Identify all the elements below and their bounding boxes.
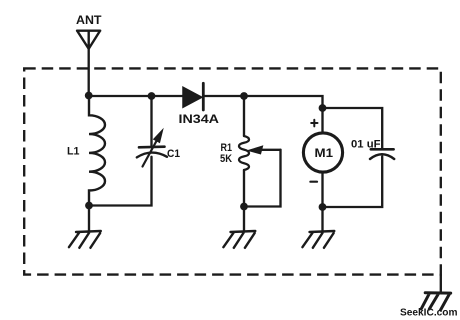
wire node C to C1 top plate	[150, 96, 152, 147]
capacitor 01uF plates	[370, 149, 394, 159]
wire diode cathode to node D	[203, 95, 244, 97]
meter M1 circle	[303, 133, 342, 172]
wire node B to ground G1	[88, 206, 90, 232]
inductor L1	[89, 96, 105, 206]
svg-text:IN34A: IN34A	[179, 112, 220, 126]
svg-text:5K: 5K	[220, 153, 232, 165]
wire node G to ground G3	[321, 207, 323, 231]
wire node A to diode anode	[89, 95, 184, 97]
ground G4 external	[421, 293, 451, 310]
node E junction dot	[240, 203, 248, 211]
variable capacitor C1	[137, 130, 167, 167]
R1 wiper arrow	[249, 146, 281, 154]
svg-text:M1: M1	[315, 146, 334, 160]
ground G3	[302, 231, 334, 248]
wire node F to capacitor 01uF top	[323, 108, 383, 149]
svg-text:L1: L1	[67, 145, 80, 157]
antenna symbol	[77, 31, 100, 49]
node C junction dot (C1 top)	[148, 92, 156, 100]
wire node D to R1 top	[243, 96, 245, 136]
wire node D to node F corner	[244, 96, 323, 108]
ground G2	[223, 231, 255, 248]
potentiometer R1 squiggle	[239, 136, 249, 170]
wire R1 wiper loop	[248, 150, 281, 207]
wire meter M1 to node G	[321, 172, 323, 207]
wire antenna to node A	[88, 49, 90, 96]
node F junction dot	[319, 104, 327, 112]
node B junction dot	[85, 202, 93, 210]
node A junction dot	[85, 92, 93, 100]
dashed enclosure box	[24, 68, 441, 274]
ground G1	[69, 231, 101, 248]
node G junction dot	[319, 203, 327, 211]
wire node E to ground G2	[243, 207, 245, 232]
svg-text:01 uF: 01 uF	[351, 138, 381, 150]
wire C1 bottom to node B	[89, 157, 152, 206]
wire enclosure corner to external ground	[440, 275, 442, 293]
plus polarity label	[311, 120, 317, 127]
minus polarity label	[310, 181, 317, 183]
node D junction dot	[240, 92, 248, 100]
wire R1 bottom to node E	[243, 170, 245, 207]
wire capacitor 01uF bottom to node G	[323, 157, 383, 208]
wire node F to meter M1	[321, 108, 323, 133]
diode D1 1N34A	[183, 83, 203, 110]
svg-text:ANT: ANT	[76, 13, 102, 27]
svg-text:C1: C1	[167, 148, 180, 160]
